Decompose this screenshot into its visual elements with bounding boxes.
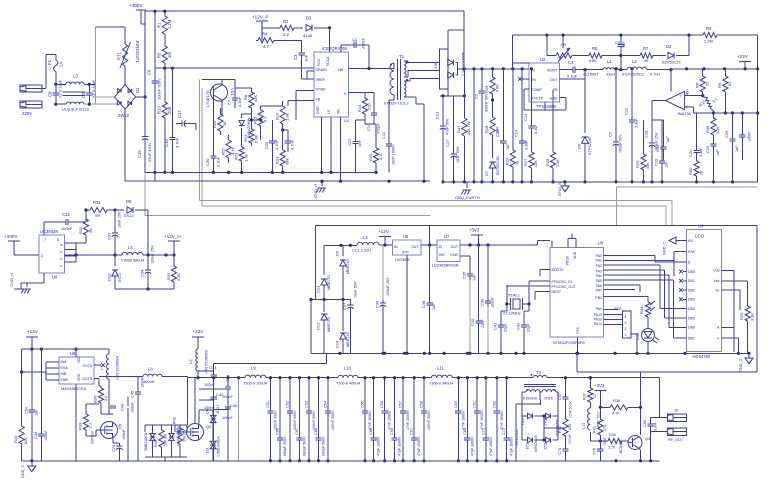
- resistor R36 2.2: [93, 386, 109, 407]
- svg-text:PA0: PA0: [596, 254, 602, 258]
- svg-text:C88: C88: [314, 428, 318, 435]
- capacitor C61 47nF 1000V: [473, 376, 485, 462]
- svg-text:C23: C23: [495, 129, 500, 137]
- svg-text:C49: C49: [120, 403, 125, 411]
- diode D5 MBR20100CT: [433, 30, 465, 89]
- capacitor C23 1uF: [495, 69, 510, 184]
- resistor R10 0.1: [698, 96, 719, 115]
- capacitor C5 1uF: [615, 35, 626, 70]
- svg-text:1uF: 1uF: [666, 136, 670, 143]
- svg-text:IN: IN: [394, 245, 398, 249]
- svg-text:U6: U6: [52, 275, 58, 280]
- svg-text:47nF 1000V: 47nF 1000V: [406, 410, 410, 430]
- svg-text:2.2K: 2.2K: [177, 273, 181, 281]
- resistor R27 22K: [523, 150, 538, 183]
- svg-text:150 2W: 150 2W: [164, 433, 168, 446]
- resistor R19 5.6K: [484, 69, 500, 100]
- svg-text:U7: U7: [444, 234, 450, 239]
- wire DRAIN: [307, 71, 314, 79]
- svg-text:680pF 500V: 680pF 500V: [303, 436, 307, 456]
- svg-text:100nF: 100nF: [44, 430, 48, 441]
- svg-text:INH: INH: [439, 253, 446, 257]
- capacitor C35: [460, 256, 477, 353]
- svg-text:DB6: DB6: [688, 326, 695, 330]
- svg-text:Q1: Q1: [118, 424, 123, 430]
- svg-text:PA7: PA7: [596, 289, 602, 293]
- svg-text:ETD29 16:5:2: ETD29 16:5:2: [384, 101, 409, 106]
- svg-text:C24: C24: [514, 129, 519, 137]
- crystal XTAL1 27.12MHz: [503, 286, 531, 316]
- ground GND_S: [557, 180, 569, 196]
- wire U6 top: [44, 222, 60, 235]
- wire: [547, 35, 588, 55]
- svg-text:68K: 68K: [285, 158, 290, 165]
- wire GND U2: [545, 98, 566, 111]
- svg-text:SR: SR: [337, 109, 341, 114]
- trim resistor R12: [547, 35, 576, 62]
- resistor R14 220: [349, 93, 372, 120]
- svg-text:10uF 50V: 10uF 50V: [353, 281, 357, 298]
- svg-text:82K: 82K: [24, 437, 28, 444]
- svg-text:R38: R38: [613, 398, 621, 403]
- svg-text:100nF 500V: 100nF 500V: [274, 410, 278, 430]
- svg-text:100uF 50V: 100uF 50V: [619, 134, 623, 153]
- svg-text:LM7805: LM7805: [395, 257, 410, 262]
- wire q1: [86, 414, 113, 443]
- svg-text:C58: C58: [420, 401, 424, 408]
- wire box outline: [316, 225, 758, 371]
- inductor L9 T106-6 100uH: [228, 366, 338, 386]
- svg-text:1: 1: [59, 258, 63, 260]
- svg-text:100nF: 100nF: [491, 297, 495, 308]
- diode D9b MMBZ4148: [239, 114, 251, 144]
- capacitor C17: [176, 110, 196, 130]
- svg-text:JNR10S471: JNR10S471: [135, 40, 140, 63]
- svg-text:L1: L1: [607, 59, 612, 64]
- wire col238: [237, 376, 240, 461]
- capacitor C12 3.3uF: [624, 67, 639, 183]
- wire: [110, 208, 117, 211]
- svg-text:MBR740: MBR740: [346, 259, 350, 274]
- resistor R1 1.2M: [157, 11, 173, 42]
- svg-text:C83: C83: [643, 420, 647, 427]
- wire rail113: [694, 111, 760, 114]
- resistor R3 2.2M: [689, 26, 758, 44]
- svg-text:GND: GND: [402, 250, 410, 254]
- svg-text:C52: C52: [286, 401, 290, 408]
- svg-text:3.3uF: 3.3uF: [534, 124, 538, 134]
- svg-text:IN: IN: [439, 245, 443, 249]
- common-mode choke L3 UU9.8LF-B123: [56, 74, 96, 112]
- power +12V: [378, 229, 391, 245]
- wire +380V top rail: [145, 10, 464, 24]
- capacitor C9 X2 0.33uF: [81, 79, 96, 106]
- wire rail 172: [145, 171, 376, 174]
- wire: [154, 11, 156, 181]
- wire bridge mid: [309, 298, 350, 301]
- svg-text:GND_H: GND_H: [313, 184, 318, 198]
- svg-text:100nF 630V: 100nF 630V: [157, 78, 162, 100]
- svg-text:C8: C8: [48, 91, 53, 97]
- svg-text:R2: R2: [283, 19, 289, 24]
- diode D16 MMSD4148: [521, 413, 544, 425]
- inductor L8 100uH: [99, 367, 188, 426]
- svg-text:IRF530: IRF530: [90, 430, 95, 444]
- mosfet Q1 IRF530: [90, 422, 124, 445]
- svg-text:1K: 1K: [644, 59, 649, 63]
- svg-text:+380V: +380V: [129, 3, 143, 8]
- wire T1 sec bottom: [404, 79, 440, 182]
- wire opamp out: [652, 101, 666, 120]
- svg-text:4.3: 4.3: [378, 154, 383, 160]
- svg-text:KB68016 5uH: KB68016 5uH: [204, 350, 208, 374]
- svg-text:R3: R3: [706, 26, 712, 31]
- capacitor C77 4.7nF: [285, 130, 295, 152]
- svg-text:VCC: VCC: [317, 58, 321, 66]
- svg-text:C75: C75: [558, 448, 562, 455]
- capacitor C18 100uF 25V: [644, 120, 659, 183]
- wire lcd nc x: [679, 270, 686, 302]
- svg-text:T2: T2: [536, 370, 542, 375]
- capacitor C33 10uF 25V: [107, 210, 122, 255]
- svg-text:3.3nF: 3.3nF: [699, 147, 703, 157]
- svg-text:1: 1: [625, 333, 627, 337]
- svg-text:C25: C25: [705, 145, 710, 153]
- wire OUT: [560, 68, 604, 79]
- svg-text:DB2: DB2: [688, 289, 695, 293]
- svg-text:100uF 25V: 100uF 25V: [655, 132, 659, 151]
- svg-text:T106-6 100uH: T106-6 100uH: [243, 382, 268, 386]
- wire lcd AK: [721, 324, 747, 353]
- inductor L6 KB68016 5uH: [188, 349, 208, 374]
- svg-text:R37: R37: [583, 393, 587, 400]
- svg-text:1uF: 1uF: [304, 55, 309, 62]
- svg-text:R42: R42: [173, 417, 177, 424]
- svg-text:OUTA: OUTA: [83, 364, 93, 368]
- svg-text:RT1: RT1: [117, 51, 122, 60]
- wire q2: [180, 378, 199, 432]
- svg-text:1uF: 1uF: [716, 149, 720, 156]
- svg-text:C60: C60: [463, 428, 467, 435]
- svg-text:R16: R16: [275, 112, 280, 120]
- svg-text:PA5: PA5: [596, 279, 602, 283]
- transistor Q3 BC846B: [619, 407, 650, 461]
- svg-text:C74: C74: [111, 444, 116, 452]
- svg-text:GND_EARTH: GND_EARTH: [455, 195, 480, 200]
- svg-text:R6: R6: [592, 46, 598, 51]
- svg-text:1uF: 1uF: [735, 145, 739, 152]
- power +12V bl: [26, 329, 39, 349]
- svg-text:R25: R25: [368, 153, 373, 161]
- svg-text:150 2W: 150 2W: [183, 429, 187, 442]
- wire: [42, 54, 56, 88]
- capacitor C6 100nF 630V: [147, 69, 162, 100]
- svg-text:R33: R33: [166, 272, 171, 280]
- svg-text:C40: C40: [216, 392, 224, 397]
- wire OSC: [507, 281, 550, 286]
- svg-text:47pF 1000V: 47pF 1000V: [377, 436, 381, 456]
- svg-text:1.9K: 1.9K: [285, 112, 290, 121]
- svg-text:R49: R49: [705, 125, 710, 133]
- resistor R8 62: [695, 69, 710, 96]
- svg-text:100nF: 100nF: [568, 434, 572, 444]
- wire step: [617, 187, 758, 225]
- wire: [328, 26, 331, 52]
- capacitor C15 22uF 450V: [137, 131, 152, 162]
- capacitor C89 47pF 1000V: [369, 376, 381, 462]
- svg-text:C40: C40: [470, 318, 475, 326]
- wire rail 54V: [458, 67, 529, 70]
- svg-text:ICE2QR4765: ICE2QR4765: [322, 46, 348, 51]
- svg-text:C76: C76: [593, 448, 597, 455]
- svg-text:+300V: +300V: [4, 234, 18, 239]
- svg-text:+12V_P: +12V_P: [252, 15, 268, 20]
- wire lcd RW E: [674, 251, 687, 276]
- capacitor C53 100nF 500V: [305, 376, 317, 462]
- wire out area: [614, 432, 659, 463]
- svg-text:Vdd: Vdd: [713, 269, 719, 273]
- capacitor C27 10uF 50V: [445, 96, 460, 184]
- svg-text:1N1K: 1N1K: [544, 397, 554, 401]
- svg-text:4.7nF: 4.7nF: [175, 137, 180, 148]
- resistor R21 6.8K: [243, 126, 259, 146]
- svg-text:PA14: PA14: [594, 322, 602, 326]
- svg-text:1.2M: 1.2M: [167, 19, 172, 29]
- svg-text:INA736: INA736: [678, 111, 692, 116]
- capacitor C51 100nF 500V: [266, 376, 278, 462]
- svg-text:PF1/OSC_OUT: PF1/OSC_OUT: [552, 285, 577, 289]
- svg-text:4.7: 4.7: [263, 44, 269, 49]
- svg-text:330pF: 330pF: [361, 38, 366, 50]
- svg-text:C30: C30: [205, 158, 210, 166]
- ic U9 MAX4662 box: [59, 351, 94, 391]
- capacitor C10 470pF: [365, 93, 381, 134]
- svg-text:STPS2L60: STPS2L60: [588, 137, 592, 155]
- svg-text:R19: R19: [484, 85, 489, 93]
- resistor R33 2.2K: [166, 255, 181, 289]
- svg-text:1.5KE440CA: 1.5KE440CA: [217, 436, 221, 457]
- svg-text:GND: GND: [316, 106, 320, 114]
- svg-text:47nF 1000V: 47nF 1000V: [500, 410, 504, 430]
- svg-text:X2 0.33uF: X2 0.33uF: [58, 79, 63, 98]
- svg-text:L2: L2: [632, 59, 637, 64]
- resistor R40 100: [558, 410, 572, 443]
- wire U6 pins right: [65, 243, 78, 262]
- svg-text:R8: R8: [695, 82, 700, 88]
- svg-text:3: 3: [59, 251, 63, 253]
- svg-text:C3: C3: [293, 54, 298, 60]
- svg-text:+22V: +22V: [737, 54, 749, 59]
- ic U7 LD2985BM33R: [432, 234, 460, 268]
- svg-text:3.3uF: 3.3uF: [525, 140, 529, 150]
- svg-text:C86: C86: [276, 428, 280, 435]
- svg-text:C7: C7: [608, 131, 613, 137]
- svg-text:DB0: DB0: [688, 270, 695, 274]
- svg-text:OUTB: OUTB: [82, 377, 92, 381]
- svg-text:D21: D21: [525, 443, 529, 450]
- svg-text:R21: R21: [243, 134, 248, 142]
- resistor R25 4.3: [368, 124, 383, 174]
- node: [54, 83, 57, 106]
- wire gnd row: [115, 287, 174, 290]
- wire sec tap: [440, 89, 466, 97]
- op-amp U1 ICE2QR4765 box: [314, 46, 350, 123]
- capacitor C37 10uF 50V: [342, 281, 358, 353]
- svg-text:RF_OUT: RF_OUT: [668, 438, 684, 442]
- capacitor C14 3.3uF: [523, 67, 538, 150]
- svg-text:0.1uF: 0.1uF: [567, 74, 578, 79]
- svg-text:+3V3: +3V3: [594, 383, 605, 388]
- svg-text:20K: 20K: [167, 106, 172, 114]
- svg-text:J6: J6: [674, 409, 678, 413]
- wire MCU vss: [577, 337, 579, 353]
- svg-text:3.3uF: 3.3uF: [635, 118, 639, 128]
- svg-text:33nF: 33nF: [603, 437, 607, 445]
- op-amp U6 UC3842N box: [39, 229, 65, 280]
- svg-text:C39: C39: [480, 298, 485, 306]
- capacitor C30 3.3nF: [205, 108, 221, 172]
- ground GND_C 2: [739, 353, 753, 372]
- wire fb bus: [200, 201, 672, 226]
- wire: [631, 334, 638, 353]
- wire U9 vdd: [74, 348, 77, 461]
- wire tvs bank: [145, 425, 187, 461]
- svg-text:2.2K: 2.2K: [716, 126, 720, 134]
- wire bottom gnd rail: [187, 460, 660, 462]
- wire opamp inputs: [685, 94, 705, 113]
- svg-text:33uH: 33uH: [606, 73, 615, 77]
- fuse F1 2A: [47, 54, 64, 84]
- bridge rectifier D1 2W10: [115, 85, 140, 118]
- svg-text:U5: U5: [403, 234, 409, 239]
- svg-text:3.3K: 3.3K: [751, 313, 755, 321]
- power +380V: [129, 3, 146, 24]
- svg-text:R24: R24: [275, 156, 280, 164]
- wire U6 left down: [14, 273, 44, 289]
- svg-text:RS: RS: [688, 239, 694, 243]
- diode D12 MBR740: [316, 300, 332, 354]
- inductor L1 33uH SL1506T: [583, 59, 618, 77]
- svg-text:4: 4: [625, 315, 627, 319]
- connector J4 SWD: [614, 307, 631, 338]
- diode D10 ES1J: [107, 255, 123, 289]
- resistor R22 4.7K: [221, 135, 236, 163]
- capacitor C44 100nF: [33, 349, 48, 461]
- resistor R43 82K: [13, 370, 28, 460]
- capacitor C45 100nF: [130, 377, 145, 461]
- resistor R16 1.9K: [275, 101, 290, 130]
- svg-text:+12V: +12V: [378, 229, 390, 234]
- svg-text:100nF 500V: 100nF 500V: [427, 410, 431, 430]
- svg-text:100nF 500V: 100nF 500V: [312, 410, 316, 430]
- capacitor C32 100nF: [60, 210, 86, 231]
- svg-text:PA9: PA9: [596, 307, 602, 311]
- svg-text:C54: C54: [324, 401, 328, 408]
- ground GND_C bl: [21, 459, 36, 478]
- diode D13 MBR740: [316, 245, 332, 299]
- svg-text:PA6: PA6: [596, 284, 602, 288]
- wire: [188, 371, 243, 379]
- wire: [670, 69, 672, 92]
- svg-text:C14: C14: [523, 113, 528, 121]
- diode D2 BZV55C22: [654, 35, 689, 64]
- svg-text:R27: R27: [523, 158, 528, 166]
- svg-text:R39: R39: [78, 422, 83, 430]
- svg-text:R9: R9: [717, 82, 722, 88]
- wire: [321, 133, 323, 172]
- svg-text:HB: HB: [338, 68, 344, 72]
- svg-text:C56: C56: [380, 401, 384, 408]
- transformer T2: [523, 370, 566, 401]
- svg-text:STM32F030F4P6: STM32F030F4P6: [553, 340, 585, 345]
- svg-text:LS: LS: [327, 109, 331, 114]
- svg-text:T1: T1: [399, 54, 405, 59]
- svg-text:100: 100: [568, 424, 572, 430]
- wire capgrid: [199, 376, 230, 409]
- capacitor C71 47pF 1000V: [481, 376, 493, 462]
- capacitor C1 330pF: [341, 37, 369, 69]
- connector J1 (AC line): [20, 85, 42, 92]
- capacitor C42 22pF: [516, 304, 531, 353]
- svg-text:C19: C19: [654, 158, 659, 166]
- svg-text:DB3: DB3: [688, 298, 695, 302]
- resistor R29 49K: [635, 120, 650, 183]
- capacitor C31 1uF: [652, 120, 670, 160]
- svg-text:CCL 2.2uH: CCL 2.2uH: [352, 248, 371, 253]
- capacitor C83 3.3nF: [643, 418, 658, 432]
- svg-text:4: 4: [59, 265, 63, 267]
- svg-text:220: 220: [367, 103, 372, 110]
- svg-text:BC846B: BC846B: [619, 439, 623, 453]
- capacitor C91 47pF 1000V: [410, 376, 422, 462]
- svg-text:2: 2: [625, 327, 627, 331]
- capacitor C88 680pF 500V: [314, 376, 326, 462]
- svg-text:ENA: ENA: [61, 366, 69, 370]
- svg-text:2A: 2A: [59, 62, 64, 67]
- svg-text:62: 62: [705, 81, 710, 86]
- capacitor C86 680pF 500V: [276, 376, 288, 462]
- svg-text:C55: C55: [361, 401, 365, 408]
- svg-text:47nF 1000V: 47nF 1000V: [461, 410, 465, 430]
- diode D17 MMSD4148: [543, 413, 559, 436]
- wire bl gnd: [22, 460, 187, 462]
- diode D22 MMSD4148: [534, 416, 558, 452]
- svg-text:Vss: Vss: [714, 279, 720, 283]
- svg-text:VSS: VSS: [576, 326, 580, 334]
- tvs D34 1.5KE: [205, 436, 221, 461]
- svg-text:VREF: VREF: [316, 78, 326, 82]
- wire T1 primary bottom: [389, 95, 394, 100]
- svg-text:D8: D8: [126, 199, 132, 204]
- svg-text:C15: C15: [137, 150, 142, 158]
- svg-text:GND: GND: [450, 253, 458, 257]
- svg-text:VDDA: VDDA: [565, 256, 569, 266]
- svg-text:L7: L7: [99, 365, 104, 370]
- resistor R38 4.7K: [600, 398, 642, 416]
- capacitor C54 100nF 500V: [324, 376, 336, 462]
- wire: [651, 378, 660, 418]
- resistor R47 20K 1W: [456, 69, 471, 184]
- svg-text:C4: C4: [568, 60, 574, 65]
- svg-text:OUT: OUT: [411, 245, 419, 249]
- svg-text:LCD: LCD: [695, 234, 705, 239]
- svg-text:PA4: PA4: [596, 274, 602, 278]
- svg-text:47pF 1000V: 47pF 1000V: [489, 436, 493, 456]
- svg-text:10uF 50V: 10uF 50V: [456, 146, 460, 163]
- inductor L4 CCL 2.2uH: [352, 235, 393, 253]
- svg-text:C26: C26: [724, 130, 729, 138]
- svg-text:CW68 680uH: CW68 680uH: [121, 258, 145, 263]
